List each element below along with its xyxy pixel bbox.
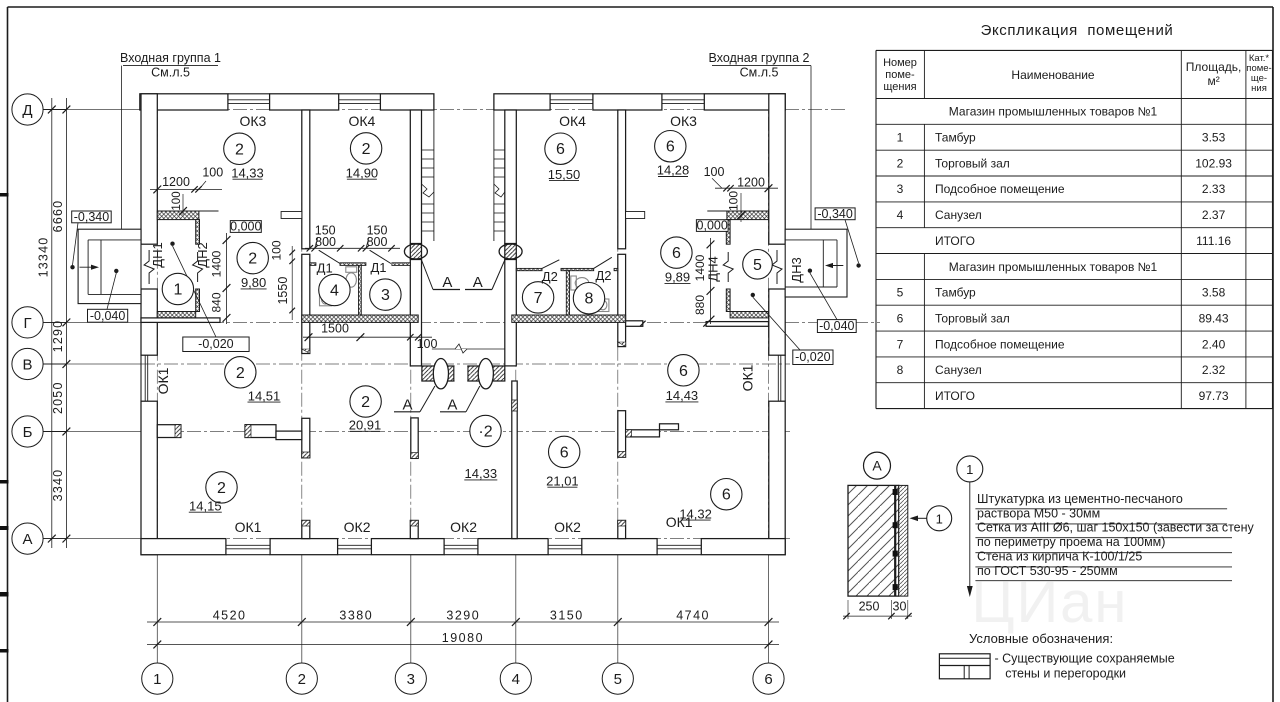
svg-text:-0,040: -0,040 xyxy=(819,319,854,333)
svg-text:14,15: 14,15 xyxy=(189,498,222,513)
svg-text:А: А xyxy=(402,397,412,414)
svg-text:Входная группа 1: Входная группа 1 xyxy=(120,51,221,65)
svg-text:89.43: 89.43 xyxy=(1199,311,1229,325)
svg-text:20,91: 20,91 xyxy=(349,418,382,433)
svg-text:100: 100 xyxy=(727,191,741,211)
table grid xyxy=(876,49,1273,51)
svg-text:1400: 1400 xyxy=(693,254,707,281)
axis А line xyxy=(43,538,141,540)
svg-text:-0,340: -0,340 xyxy=(817,207,852,221)
svg-text:5: 5 xyxy=(753,257,762,274)
svg-text:стены и перегородки: стены и перегородки xyxy=(1005,667,1126,681)
svg-text:250: 250 xyxy=(859,600,880,614)
room 6 circle (21,01 bay) xyxy=(549,436,580,467)
svg-text:А: А xyxy=(872,458,882,474)
svg-text:2.33: 2.33 xyxy=(1202,182,1226,196)
wall on axis Г right side xyxy=(626,321,643,327)
dim 100 vertical tambour1 xyxy=(182,194,184,215)
room 6 circle (15,50 bay) xyxy=(545,133,576,164)
corridor right wall xyxy=(505,110,517,244)
dim 1200 tambour1 xyxy=(150,188,222,190)
detail A mesh line xyxy=(894,486,896,596)
wall on axis 4 lower part xyxy=(512,381,517,539)
detail A leader circle 1 xyxy=(927,506,952,531)
svg-text:2.40: 2.40 xyxy=(1202,337,1226,351)
svg-text:14,51: 14,51 xyxy=(248,388,281,403)
svg-text:3: 3 xyxy=(381,287,390,304)
level box 0.000 left xyxy=(230,221,261,233)
detail A circle xyxy=(864,452,891,479)
dim 100 vertical tambour5 xyxy=(740,193,742,222)
dim 1400-840 left xyxy=(226,233,228,324)
svg-text:-0,340: -0,340 xyxy=(74,210,109,224)
svg-text:ОК1: ОК1 xyxy=(666,514,693,530)
stub axis 2 at bottom wall xyxy=(302,520,310,538)
svg-text:Торговый зал: Торговый зал xyxy=(935,311,1010,325)
svg-text:15,50: 15,50 xyxy=(548,167,581,182)
svg-text:3.53: 3.53 xyxy=(1202,131,1226,145)
svg-text:100: 100 xyxy=(704,165,725,179)
svg-text:4740: 4740 xyxy=(676,609,710,623)
room 6 circle (14,28 bay) xyxy=(655,131,686,162)
svg-text:ОК3: ОК3 xyxy=(239,113,266,129)
svg-text:ДН3: ДН3 xyxy=(789,257,804,282)
svg-text:См.л.5: См.л.5 xyxy=(151,66,190,80)
left wall window OK1 xyxy=(140,355,142,401)
svg-text:Д1: Д1 xyxy=(317,261,333,276)
ladder treads left xyxy=(422,149,434,151)
washbasin in room 4 xyxy=(320,293,332,306)
room 1 circle tambour xyxy=(162,273,193,304)
svg-text:1200: 1200 xyxy=(737,176,765,190)
level box -0.040 right xyxy=(817,320,856,333)
svg-text:1290: 1290 xyxy=(51,320,65,353)
svg-text:2050: 2050 xyxy=(51,381,65,414)
svg-text:1: 1 xyxy=(966,462,973,477)
svg-text:6: 6 xyxy=(764,671,772,688)
svg-text:9,80: 9,80 xyxy=(241,275,266,290)
oval column on band right xyxy=(478,359,493,389)
svg-text:30: 30 xyxy=(893,600,907,614)
svg-text:14,33: 14,33 xyxy=(231,165,264,180)
svg-text:Штукатурка из цементно-песчано: Штукатурка из цементно-песчаного xyxy=(977,492,1183,506)
svg-text:ОК4: ОК4 xyxy=(559,113,586,129)
axis 5 line xyxy=(617,94,619,555)
bottom wall windows OK1 OK2 OK2 OK2 OK1 xyxy=(226,554,270,556)
svg-text:Тамбур: Тамбур xyxy=(935,131,976,145)
svg-text:800: 800 xyxy=(367,235,388,249)
svg-text:8: 8 xyxy=(585,291,594,308)
svg-text:Д2: Д2 xyxy=(595,268,611,283)
svg-text:Д1: Д1 xyxy=(370,260,386,275)
rooms 7-8 top partition xyxy=(516,268,542,270)
svg-text:ИТОГО: ИТОГО xyxy=(935,234,975,248)
svg-text:А: А xyxy=(473,274,483,291)
svg-text:2: 2 xyxy=(361,394,370,411)
svg-text:Наименование: Наименование xyxy=(1011,68,1095,82)
svg-text:13340: 13340 xyxy=(37,237,51,278)
stub axis 3 at bottom wall xyxy=(410,520,418,538)
tambour1 bottom wall xyxy=(157,312,195,318)
svg-text:Санузел: Санузел xyxy=(935,208,982,222)
svg-text:1200: 1200 xyxy=(162,175,190,189)
axis circles bottom xyxy=(142,663,173,694)
svg-text:5: 5 xyxy=(614,671,622,688)
room 5 circle tambour xyxy=(743,249,773,279)
wall on axis Г left xyxy=(141,318,220,323)
corridor left wall xyxy=(410,110,421,244)
svg-text:4520: 4520 xyxy=(213,609,247,623)
left dimension line total xyxy=(51,98,53,548)
svg-text:Экспликация помещений: Экспликация помещений xyxy=(981,22,1174,39)
svg-text:6: 6 xyxy=(666,139,675,156)
room 7 circle xyxy=(522,282,553,313)
legend wall symbol xyxy=(939,654,990,679)
tambour5 bottom wall xyxy=(730,312,768,318)
svg-text:8: 8 xyxy=(897,363,904,377)
svg-text:2: 2 xyxy=(235,141,244,158)
recess edge lines xyxy=(433,94,435,241)
svg-text:100: 100 xyxy=(202,166,223,180)
stub axis 5 at bottom wall xyxy=(618,520,626,538)
column left at axis 3 xyxy=(404,244,427,259)
axis 3 line xyxy=(410,94,412,555)
svg-text:2: 2 xyxy=(298,671,306,688)
pier on axis 2 below Б xyxy=(302,418,310,458)
detail A dims 250-30 xyxy=(843,615,912,617)
svg-text:6: 6 xyxy=(897,311,904,325)
left dimension line segments xyxy=(65,98,67,548)
svg-text:6: 6 xyxy=(556,141,565,158)
svg-text:А: А xyxy=(447,397,457,414)
level box -0.340 right xyxy=(815,208,855,220)
svg-text:4: 4 xyxy=(897,208,904,222)
column hatch right xyxy=(505,244,517,259)
svg-text:3290: 3290 xyxy=(446,609,480,623)
column right at axis 4 xyxy=(499,244,522,259)
tambour5 top wall xyxy=(727,211,769,220)
svg-text:Тамбур: Тамбур xyxy=(935,286,976,300)
svg-text:9,89: 9,89 xyxy=(665,270,690,285)
svg-text:2.37: 2.37 xyxy=(1202,208,1226,222)
room 2 circle (9,80 zone) xyxy=(237,242,268,273)
axis Д line xyxy=(43,109,141,111)
room 2 circle (14,15 bay) xyxy=(206,472,237,503)
oval column on band left xyxy=(433,359,448,389)
axis 1 line xyxy=(156,94,158,555)
svg-text:19080: 19080 xyxy=(442,631,484,645)
svg-text:А: А xyxy=(442,274,452,291)
svg-text:ДН2: ДН2 xyxy=(195,242,210,267)
left wall segments xyxy=(141,94,157,244)
svg-text:3.58: 3.58 xyxy=(1202,286,1226,300)
dims 150-800 room4 xyxy=(305,247,400,249)
rooms 3-4 bottom wall xyxy=(302,315,418,322)
svg-text:2: 2 xyxy=(362,141,371,158)
svg-text:6: 6 xyxy=(722,487,731,504)
svg-text:21,01: 21,01 xyxy=(546,473,579,488)
svg-text:ОК1: ОК1 xyxy=(235,519,262,535)
tambour1 top wall xyxy=(157,211,199,220)
room 6 circle (14,43 bay) xyxy=(668,355,699,386)
door Д1 leaf room3 xyxy=(370,250,391,263)
dim 1400-880 right xyxy=(710,238,712,324)
svg-text:по ГОСТ 530-95 - 250мм: по ГОСТ 530-95 - 250мм xyxy=(977,564,1118,578)
svg-text:6: 6 xyxy=(560,444,569,461)
svg-text:раствора М50 - 30мм: раствора М50 - 30мм xyxy=(977,507,1100,521)
room 2 circle (14,33 lower bay) xyxy=(470,415,501,446)
svg-text:6: 6 xyxy=(672,245,681,262)
ladder treads right xyxy=(494,149,505,151)
svg-text:Г: Г xyxy=(23,315,31,332)
svg-text:1: 1 xyxy=(153,671,161,688)
wall band at axis В with break xyxy=(432,348,505,350)
svg-text:Площадь,: Площадь, xyxy=(1186,60,1242,74)
washbasin in room 8 xyxy=(597,299,609,312)
svg-text:1: 1 xyxy=(173,282,182,299)
axis 6 line xyxy=(768,94,770,555)
svg-text:ОК3: ОК3 xyxy=(670,113,697,129)
svg-text:1500: 1500 xyxy=(321,322,349,336)
level box -0.020 right xyxy=(793,350,833,365)
left porch arrow xyxy=(80,266,98,268)
axis 4 line xyxy=(515,94,517,555)
svg-text:ОК4: ОК4 xyxy=(348,113,375,129)
axis Б line xyxy=(43,431,141,433)
axis Г line xyxy=(43,321,141,323)
svg-text:14,33: 14,33 xyxy=(465,466,498,481)
svg-text:См.л.5: См.л.5 xyxy=(740,66,779,80)
svg-text:3: 3 xyxy=(897,182,904,196)
room 3 circle xyxy=(370,279,401,310)
wall on axis 2 xyxy=(302,110,310,249)
svg-text:14,28: 14,28 xyxy=(657,163,690,178)
svg-text:1: 1 xyxy=(936,511,943,526)
svg-text:В: В xyxy=(22,357,32,374)
level box -0.020 left xyxy=(183,337,249,352)
svg-text:Магазин промышленных товаров №: Магазин промышленных товаров №1 xyxy=(949,260,1158,274)
svg-text:Подсобное помещение: Подсобное помещение xyxy=(935,337,1065,351)
svg-text:1550: 1550 xyxy=(276,277,290,305)
svg-text:Магазин промышленных товаров №: Магазин промышленных товаров №1 xyxy=(949,105,1158,119)
svg-text:-0,040: -0,040 xyxy=(90,309,125,323)
door ДН2 break mark xyxy=(193,252,203,282)
svg-text:4: 4 xyxy=(512,671,520,688)
svg-text:4: 4 xyxy=(330,283,339,300)
svg-text:2: 2 xyxy=(236,365,245,382)
svg-text:3: 3 xyxy=(407,671,415,688)
tambour5 partition with ДН4 opening xyxy=(726,220,730,245)
bottom dimension line total xyxy=(147,644,779,646)
svg-text:А: А xyxy=(22,531,32,548)
room 4 circle xyxy=(319,274,350,305)
svg-text:ОК1: ОК1 xyxy=(155,367,171,394)
bottom wall segments xyxy=(141,539,226,555)
svg-text:ДН1: ДН1 xyxy=(150,242,165,267)
break zigzag left strip xyxy=(422,184,434,197)
svg-text:1: 1 xyxy=(897,131,904,145)
axis circles left xyxy=(43,109,66,111)
svg-text:Д2: Д2 xyxy=(542,269,558,284)
right porch (entry group 2) xyxy=(785,229,847,297)
svg-text:Санузел: Санузел xyxy=(935,363,982,377)
svg-text:102.93: 102.93 xyxy=(1195,156,1232,170)
door ДН3 opening break mark xyxy=(772,250,782,284)
bottom dimension line segments xyxy=(147,621,779,623)
svg-text:ОК1: ОК1 xyxy=(739,364,755,391)
svg-text:Входная группа 2: Входная группа 2 xyxy=(709,51,810,65)
level box 0.000 right xyxy=(696,220,728,232)
top wall segments xyxy=(140,94,228,110)
svg-text:Стена из кирпича К-100/1/25: Стена из кирпича К-100/1/25 xyxy=(977,550,1142,564)
svg-text:100: 100 xyxy=(417,337,438,351)
wall on axis 5 xyxy=(618,110,626,249)
dim 100-1550 left xyxy=(291,246,293,320)
pier on axis 5 below Б xyxy=(618,411,626,458)
svg-text:2: 2 xyxy=(217,480,226,497)
svg-text:м²: м² xyxy=(1207,74,1219,88)
svg-text:100: 100 xyxy=(171,191,183,210)
svg-text:- Существующие сохраняемые: - Существующие сохраняемые xyxy=(995,652,1175,666)
svg-text:щения: щения xyxy=(883,81,916,93)
room 8 circle xyxy=(573,283,604,314)
room 2 circle (20,91 bay) xyxy=(350,386,381,417)
svg-text:поме-: поме- xyxy=(885,69,915,81)
svg-text:14,90: 14,90 xyxy=(346,165,379,180)
svg-text:-0,020: -0,020 xyxy=(198,337,233,351)
sheet frame xyxy=(8,6,1274,8)
pier on axis 3 below Б xyxy=(411,418,418,459)
svg-text:3340: 3340 xyxy=(51,469,65,502)
break zigzag right strip xyxy=(494,184,505,197)
svg-text:840: 840 xyxy=(210,292,224,312)
svg-text:6: 6 xyxy=(679,363,688,380)
svg-text:7: 7 xyxy=(897,337,904,351)
dim 1200 tambour5 xyxy=(715,187,778,189)
svg-text:ОК2: ОК2 xyxy=(554,519,581,535)
svg-text:·2: ·2 xyxy=(478,424,492,441)
door ДН1 opening break mark xyxy=(144,250,154,284)
top wall windows OK3 OK4 OK4 OK3 xyxy=(228,93,270,95)
svg-text:2: 2 xyxy=(897,156,904,170)
door ДН4 break mark xyxy=(723,252,733,282)
room 2 circle (14,51 bay) xyxy=(225,357,256,388)
svg-text:ИТОГО: ИТОГО xyxy=(935,389,975,403)
svg-text:Условные обозначения:: Условные обозначения: xyxy=(969,631,1113,646)
svg-text:880: 880 xyxy=(693,295,707,315)
svg-text:ОК2: ОК2 xyxy=(344,519,371,535)
toilet in room 8 xyxy=(571,276,589,290)
svg-text:Б: Б xyxy=(23,424,33,441)
toilet in room 4 xyxy=(346,267,357,287)
right wall window OK1 xyxy=(784,355,786,401)
svg-text:2.32: 2.32 xyxy=(1202,363,1226,377)
room 2 circle (14,90 bay) xyxy=(350,133,381,164)
svg-text:ОК2: ОК2 xyxy=(450,519,477,535)
svg-text:5: 5 xyxy=(897,286,904,300)
room 6 circle (9,89 zone) xyxy=(661,237,692,268)
wall stub right of axis 5 wall xyxy=(626,212,645,219)
room 2 circle (14,33 bay) xyxy=(224,133,255,164)
rooms 3-4 top partition xyxy=(310,263,316,266)
svg-text:1400: 1400 xyxy=(210,250,224,277)
svg-text:7: 7 xyxy=(534,290,543,307)
svg-text:2: 2 xyxy=(248,251,257,268)
svg-text:Сетка из АIII Ø6, шаг 150х150: Сетка из АIII Ø6, шаг 150х150 (завести з… xyxy=(977,521,1255,535)
svg-text:ния: ния xyxy=(1251,83,1267,94)
svg-text:6660: 6660 xyxy=(51,200,65,233)
svg-text:14,43: 14,43 xyxy=(666,388,699,403)
svg-text:-0,020: -0,020 xyxy=(795,350,830,364)
partition between rooms 3 and 4 xyxy=(359,265,362,315)
stub walls at axis Б xyxy=(157,425,181,438)
right porch arrow xyxy=(827,265,843,267)
door Д2 leaf room8 xyxy=(594,257,612,268)
door Д1 leaf room4 xyxy=(319,250,340,263)
svg-text:Торговый зал: Торговый зал xyxy=(935,156,1010,170)
svg-text:3380: 3380 xyxy=(339,609,373,623)
axis 2 line xyxy=(301,94,303,555)
svg-text:по периметру проема на 100мм): по периметру проема на 100мм) xyxy=(977,535,1165,549)
room 6 circle (14,32 bay) xyxy=(711,479,742,510)
column hatch left xyxy=(410,244,421,259)
svg-text:3150: 3150 xyxy=(550,609,584,623)
svg-text:97.73: 97.73 xyxy=(1199,389,1229,403)
svg-text:Номер: Номер xyxy=(883,57,917,69)
notes leader circle 1 xyxy=(957,456,983,482)
svg-text:ДН4: ДН4 xyxy=(706,256,721,281)
tambour1 partition with ДН2 opening xyxy=(196,220,200,245)
axis В line xyxy=(43,363,141,365)
wall stub left of axis 2 wall xyxy=(281,212,302,219)
dim 1500 under room 4 xyxy=(303,336,364,338)
left porch (entry group 1) xyxy=(78,229,141,303)
detail A brick wall xyxy=(848,485,899,596)
svg-text:Подсобное помещение: Подсобное помещение xyxy=(935,182,1065,196)
svg-text:111.16: 111.16 xyxy=(1196,234,1231,248)
svg-text:Д: Д xyxy=(22,102,32,119)
level box -0.040 left xyxy=(88,309,128,322)
margin marks xyxy=(0,193,9,197)
rooms 7-8 bottom wall xyxy=(512,315,626,322)
door Д2 leaf room7 xyxy=(542,260,559,269)
partition between rooms 7 and 8 xyxy=(566,271,569,315)
svg-text:100: 100 xyxy=(270,240,284,260)
svg-text:0,000: 0,000 xyxy=(230,220,261,234)
svg-text:0,000: 0,000 xyxy=(697,219,728,233)
dim 100 under room 3 xyxy=(360,336,432,338)
svg-text:ЦИан: ЦИан xyxy=(972,570,1129,635)
right wall segments xyxy=(769,94,785,244)
level box -0.340 left xyxy=(72,211,112,223)
detail A plaster layer xyxy=(899,485,908,596)
